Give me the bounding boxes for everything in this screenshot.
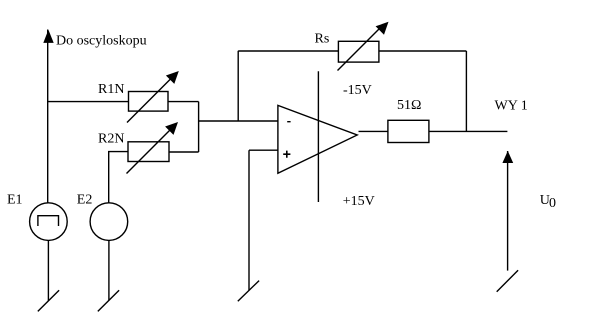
wire: non-inverting input to ground bbox=[248, 150, 250, 290]
wire: E2 bottom bbox=[108, 240, 110, 300]
svg-text:+15V: +15V bbox=[343, 194, 375, 209]
wire: junction vertical node A bbox=[198, 102, 200, 152]
wire: feedback left vertical bbox=[237, 51, 239, 121]
svg-text:WY 1: WY 1 bbox=[495, 99, 528, 114]
wire: non-inverting input bbox=[249, 149, 278, 151]
wire: E1 bottom bbox=[47, 240, 49, 300]
resistor Rs bbox=[338, 41, 379, 62]
svg-text:51Ω: 51Ω bbox=[397, 98, 421, 113]
svg-text:R2N: R2N bbox=[98, 131, 124, 146]
resistor R2N bbox=[128, 142, 169, 162]
ground: E1 slash bbox=[38, 290, 59, 311]
wire: R2N input bbox=[109, 152, 128, 203]
wire: output to WY1 bbox=[429, 130, 508, 132]
wire: feedback top left bbox=[238, 50, 338, 52]
arrowhead: R1N variable bbox=[166, 71, 179, 84]
wire: inverting input bbox=[199, 120, 278, 122]
wire: R1N output bbox=[168, 101, 199, 103]
wire: feedback top right bbox=[379, 50, 466, 52]
wire: oscilloscope probe vertical bbox=[47, 30, 49, 203]
svg-text:Rs: Rs bbox=[315, 32, 330, 47]
symbol: E1 square pulse bbox=[38, 216, 59, 226]
wire: R2N arrow diagonal bbox=[127, 129, 172, 174]
wire: power supply vertical bbox=[317, 71, 319, 202]
ground: op-amp input slash bbox=[238, 281, 259, 302]
wire: Rs arrow diagonal bbox=[338, 26, 383, 71]
arrowhead: Rs variable bbox=[376, 22, 389, 35]
ground: E2 slash bbox=[98, 290, 119, 311]
svg-text:Do oscyloskopu: Do oscyloskopu bbox=[56, 34, 147, 49]
svg-text:E1: E1 bbox=[7, 192, 23, 207]
pin: op-amp minus sign bbox=[287, 121, 290, 123]
ground: U0 slash bbox=[497, 270, 518, 291]
wire: R1N input bbox=[48, 101, 129, 103]
arrowhead: to oscilloscope bbox=[43, 30, 53, 43]
op-amp U1 bbox=[278, 105, 357, 173]
arrowhead: R2N variable bbox=[165, 122, 178, 135]
wire: R2N output bbox=[169, 151, 199, 153]
arrowhead: U0 bbox=[502, 151, 513, 163]
source E2 bbox=[90, 203, 128, 241]
resistor R1N bbox=[129, 92, 169, 112]
svg-text:E2: E2 bbox=[77, 192, 93, 207]
wire: op-amp output bbox=[359, 130, 388, 132]
svg-text:-15V: -15V bbox=[343, 83, 372, 98]
wire: R1N arrow diagonal bbox=[127, 77, 173, 123]
wire: feedback right vertical bbox=[465, 51, 467, 131]
source E1 bbox=[30, 203, 68, 241]
svg-text:0: 0 bbox=[549, 196, 556, 211]
resistor 51ohm bbox=[388, 120, 429, 142]
svg-text:R1N: R1N bbox=[98, 82, 124, 97]
pin: op-amp plus sign bbox=[283, 151, 290, 158]
wire: U0 arrow shaft bbox=[507, 151, 509, 271]
